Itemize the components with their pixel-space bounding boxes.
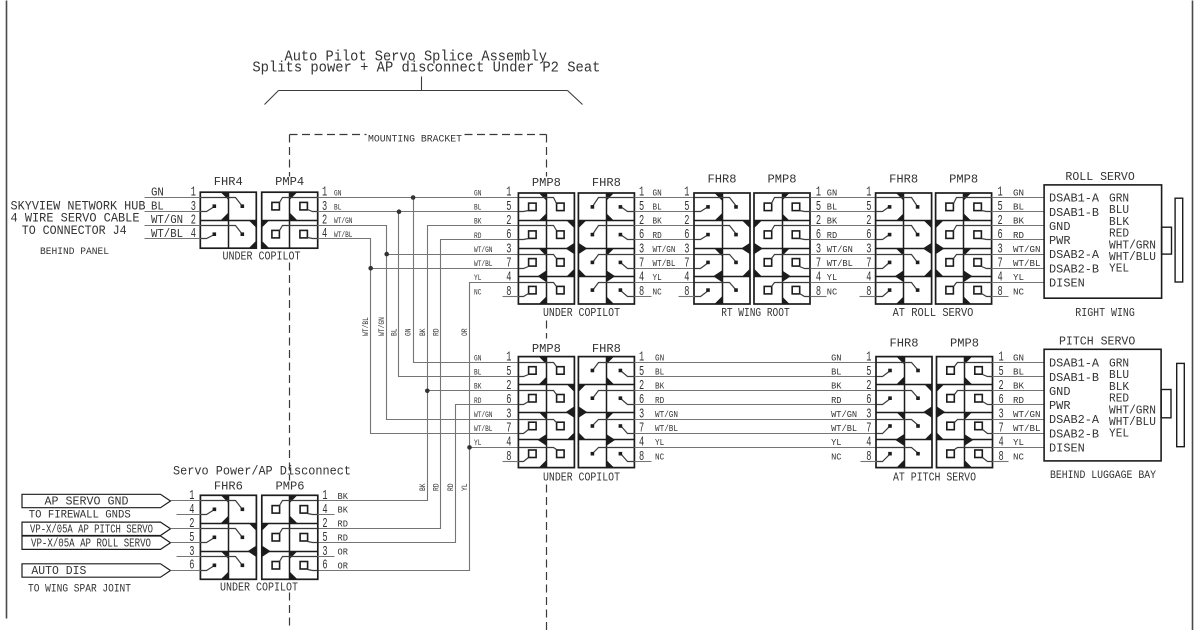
svg-text:WT/BL: WT/BL xyxy=(655,423,678,434)
svg-text:Splits power + AP disconnect U: Splits power + AP disconnect Under P2 Se… xyxy=(252,60,600,77)
svg-text:AT ROLL SERVO: AT ROLL SERVO xyxy=(893,307,974,320)
svg-text:7: 7 xyxy=(506,256,511,271)
svg-text:4: 4 xyxy=(322,503,327,518)
svg-text:2: 2 xyxy=(189,517,194,532)
svg-text:WT/GN: WT/GN xyxy=(827,244,853,255)
svg-text:NC: NC xyxy=(655,451,664,462)
wires pair C to roll servo xyxy=(992,198,1045,283)
junction BK xyxy=(425,389,430,394)
roll splice left wire labels xyxy=(474,188,493,297)
svg-text:1: 1 xyxy=(322,186,327,201)
svg-text:3: 3 xyxy=(506,407,511,422)
svg-text:WT/GN: WT/GN xyxy=(653,244,676,255)
svg-text:GND: GND xyxy=(1049,385,1071,399)
roll servo mount tab xyxy=(1162,227,1172,254)
svg-text:1: 1 xyxy=(816,186,821,201)
svg-text:BL: BL xyxy=(831,366,842,377)
svg-text:NC: NC xyxy=(827,286,838,297)
svg-text:2: 2 xyxy=(866,379,871,394)
svg-text:BL: BL xyxy=(653,202,662,213)
roll servo wire labels xyxy=(1013,187,1041,297)
pitch servo pin function labels xyxy=(1049,357,1100,456)
svg-text:PMP8: PMP8 xyxy=(768,172,797,186)
pair E left pin numbers xyxy=(866,351,871,465)
svg-text:BK: BK xyxy=(419,483,428,491)
svg-text:7: 7 xyxy=(639,256,644,271)
svg-text:WT/GN: WT/GN xyxy=(474,245,493,255)
svg-text:GN: GN xyxy=(653,187,662,198)
svg-text:4: 4 xyxy=(866,271,871,286)
svg-text:BL: BL xyxy=(827,202,838,213)
svg-text:RT WING ROOT: RT WING ROOT xyxy=(721,307,790,320)
PMP6 stub pin 3 xyxy=(318,556,335,558)
svg-text:WT/GN: WT/GN xyxy=(151,213,183,227)
svg-text:7: 7 xyxy=(866,421,871,436)
roll run B-C wires xyxy=(811,198,876,283)
svg-text:GN: GN xyxy=(334,188,341,198)
PMP6 stub pin 4 xyxy=(318,514,335,516)
pitch FHR8D NC stub right xyxy=(635,461,652,463)
pitch run D-E left wire labels xyxy=(655,352,678,462)
svg-text:UNDER COPILOT: UNDER COPILOT xyxy=(220,582,298,595)
svg-text:GN: GN xyxy=(405,328,414,336)
svg-text:BK: BK xyxy=(419,328,428,336)
svg-text:1: 1 xyxy=(189,489,194,504)
svg-text:WT/BL: WT/BL xyxy=(474,424,493,434)
svg-text:4: 4 xyxy=(816,271,821,286)
svg-text:7: 7 xyxy=(998,256,1003,271)
svg-text:7: 7 xyxy=(999,421,1004,436)
wire RD net pitch: PMP6-5 to pitch splice xyxy=(318,405,519,543)
svg-text:PMP4: PMP4 xyxy=(275,175,304,189)
svg-text:4: 4 xyxy=(639,271,644,286)
wire GN net: PMP4-1 to roll and pitch splices xyxy=(318,198,519,363)
roll splice left pin numbers xyxy=(506,186,511,300)
svg-text:DSAB2-A: DSAB2-A xyxy=(1049,413,1100,427)
svg-text:7: 7 xyxy=(639,421,644,436)
junction WT/BL xyxy=(368,266,373,271)
svg-text:8: 8 xyxy=(684,285,689,300)
pair C left NC stub xyxy=(860,296,876,298)
svg-text:VP-X/05A AP ROLL SERVO: VP-X/05A AP ROLL SERVO xyxy=(31,537,151,550)
svg-text:PITCH SERVO: PITCH SERVO xyxy=(1059,335,1135,349)
svg-text:WT/BL: WT/BL xyxy=(361,317,371,336)
svg-text:AT PITCH SERVO: AT PITCH SERVO xyxy=(893,472,976,485)
wires pair E to pitch servo xyxy=(993,363,1045,448)
roll run A-B wires xyxy=(635,198,695,283)
svg-text:3: 3 xyxy=(866,242,871,257)
svg-text:YL: YL xyxy=(655,437,664,448)
pitch servo box xyxy=(1044,349,1161,461)
svg-text:7: 7 xyxy=(816,256,821,271)
flag AP SERVO GND xyxy=(22,494,171,508)
svg-text:YL: YL xyxy=(827,272,838,283)
PMP4 pin numbers xyxy=(322,186,327,242)
mounting bracket dashed top edge xyxy=(290,134,547,136)
svg-text:YL: YL xyxy=(461,483,470,491)
svg-text:2: 2 xyxy=(816,214,821,229)
svg-text:WT/BL: WT/BL xyxy=(1013,258,1041,269)
junction YL xyxy=(467,445,472,450)
svg-text:BL: BL xyxy=(1013,202,1024,213)
svg-text:5: 5 xyxy=(506,365,511,380)
svg-text:1: 1 xyxy=(684,186,689,201)
svg-text:6: 6 xyxy=(506,393,511,408)
wire BK net: PMP6-1 to roll and pitch splices xyxy=(318,226,519,501)
svg-text:RD: RD xyxy=(338,519,349,530)
svg-text:4: 4 xyxy=(999,436,1004,451)
svg-text:5: 5 xyxy=(999,365,1004,380)
svg-text:RD: RD xyxy=(447,483,456,491)
svg-text:5: 5 xyxy=(684,200,689,215)
svg-text:NC: NC xyxy=(1013,286,1024,297)
svg-text:FHR8: FHR8 xyxy=(592,176,621,190)
svg-text:RD: RD xyxy=(831,395,842,406)
wire BL net: PMP4-3 to roll and pitch splices xyxy=(318,212,519,377)
svg-text:YL: YL xyxy=(831,437,842,448)
junction GN xyxy=(411,195,416,200)
svg-text:GN: GN xyxy=(151,185,164,199)
mounting bracket dashed left edge xyxy=(289,135,291,631)
svg-text:BEHIND PANEL: BEHIND PANEL xyxy=(40,246,109,258)
svg-text:6: 6 xyxy=(322,559,327,574)
svg-text:8: 8 xyxy=(639,285,644,300)
svg-text:1: 1 xyxy=(866,351,871,366)
roll run A-B wire labels xyxy=(653,187,676,297)
svg-text:WT/BL: WT/BL xyxy=(151,227,183,241)
svg-text:PMP6: PMP6 xyxy=(276,480,305,494)
svg-text:RD: RD xyxy=(338,533,349,544)
svg-text:6: 6 xyxy=(189,559,194,574)
svg-text:BL: BL xyxy=(151,200,164,214)
svg-text:UNDER COPILOT: UNDER COPILOT xyxy=(543,472,620,485)
pitch servo wire color labels xyxy=(1109,357,1156,441)
svg-text:BK: BK xyxy=(474,382,482,392)
svg-text:PMP8: PMP8 xyxy=(949,172,978,186)
connector FHR8 at roll servo xyxy=(876,193,932,305)
connector FHR8 rt wing root xyxy=(694,193,751,305)
svg-text:4: 4 xyxy=(998,271,1003,286)
FHR4 wire stubs xyxy=(145,198,201,239)
svg-text:2: 2 xyxy=(322,517,327,532)
svg-text:WT/BL: WT/BL xyxy=(653,258,676,269)
svg-text:RD: RD xyxy=(474,396,481,406)
svg-text:BL: BL xyxy=(391,328,400,336)
svg-text:YL: YL xyxy=(1013,272,1024,283)
svg-text:8: 8 xyxy=(506,450,511,465)
roll servo wire color labels xyxy=(1109,192,1156,276)
svg-text:2: 2 xyxy=(506,214,511,229)
connector PMP8 roll splice xyxy=(518,193,574,305)
PMP6 pin numbers xyxy=(322,489,327,574)
junction BL xyxy=(397,209,402,214)
svg-text:RD: RD xyxy=(433,328,442,336)
svg-text:6: 6 xyxy=(639,228,644,243)
svg-text:BL: BL xyxy=(474,203,481,213)
svg-text:2: 2 xyxy=(506,379,511,394)
svg-text:6: 6 xyxy=(506,228,511,243)
svg-text:NC: NC xyxy=(1013,451,1024,462)
svg-text:6: 6 xyxy=(866,393,871,408)
svg-text:4: 4 xyxy=(684,271,689,286)
svg-text:5: 5 xyxy=(639,200,644,215)
svg-text:UNDER COPILOT: UNDER COPILOT xyxy=(543,307,620,320)
svg-text:GN: GN xyxy=(831,352,841,363)
wire WT/GN net: PMP4-2 to roll and pitch splices xyxy=(318,226,519,420)
roll servo pin function labels xyxy=(1049,192,1100,291)
svg-text:1: 1 xyxy=(866,186,871,201)
roll splice right pin numbers xyxy=(639,186,644,300)
svg-text:FHR6: FHR6 xyxy=(214,480,243,494)
drawing frame left border xyxy=(6,1,8,619)
svg-text:5: 5 xyxy=(866,365,871,380)
FHR6 stub pin 3 xyxy=(177,556,201,558)
drawing frame right border xyxy=(1192,1,1194,631)
pitch servo wire labels xyxy=(1013,352,1041,462)
wire RD net roll: PMP6-2 to roll splice xyxy=(318,240,519,529)
connector FHR6 xyxy=(200,495,256,579)
svg-text:FHR8: FHR8 xyxy=(890,337,919,351)
svg-text:6: 6 xyxy=(684,228,689,243)
svg-text:1: 1 xyxy=(999,351,1004,366)
connector FHR8 roll splice xyxy=(578,193,634,305)
pair E NC stub right xyxy=(993,461,1009,463)
svg-text:DSAB1-A: DSAB1-A xyxy=(1049,357,1100,371)
svg-text:2: 2 xyxy=(684,214,689,229)
svg-text:RIGHT WING: RIGHT WING xyxy=(1075,307,1135,320)
connector FHR4 xyxy=(200,192,256,248)
svg-text:FHR8: FHR8 xyxy=(889,172,918,186)
svg-text:YL: YL xyxy=(474,438,481,448)
connector PMP8 pitch splice xyxy=(518,357,574,468)
svg-text:TO CONNECTOR J4: TO CONNECTOR J4 xyxy=(22,223,127,238)
svg-text:PMP8: PMP8 xyxy=(950,337,979,351)
svg-text:GN: GN xyxy=(1013,187,1024,198)
pair B left pin numbers xyxy=(684,186,689,300)
FHR6 pin numbers xyxy=(189,489,194,574)
pitch servo mount bar xyxy=(1177,363,1185,446)
pitch splice right pin numbers xyxy=(639,351,644,465)
svg-text:YL: YL xyxy=(653,272,662,283)
svg-text:NC: NC xyxy=(474,287,481,297)
svg-text:WT/BL: WT/BL xyxy=(474,259,493,269)
svg-text:BK: BK xyxy=(338,505,349,516)
svg-text:DSAB1-B: DSAB1-B xyxy=(1049,371,1099,385)
roll splice NC stub left xyxy=(503,296,519,298)
svg-text:WT/BL: WT/BL xyxy=(827,258,853,269)
svg-text:8: 8 xyxy=(866,285,871,300)
pair C NC stub right xyxy=(992,296,1009,298)
pair E left NC stub xyxy=(861,461,877,463)
svg-text:PWR: PWR xyxy=(1049,399,1071,413)
svg-text:3: 3 xyxy=(189,545,194,560)
svg-text:OR: OR xyxy=(461,328,470,336)
connector PMP6 xyxy=(262,495,318,579)
pitch splice left wire labels xyxy=(474,353,493,448)
svg-text:AUTO DIS: AUTO DIS xyxy=(31,565,86,578)
svg-text:1: 1 xyxy=(998,186,1003,201)
svg-text:YEL: YEL xyxy=(1109,427,1129,441)
svg-text:MOUNTING BRACKET: MOUNTING BRACKET xyxy=(368,134,462,146)
svg-text:2: 2 xyxy=(999,379,1004,394)
pair C right pin numbers xyxy=(998,186,1003,300)
pair C left pin numbers xyxy=(866,186,871,300)
svg-text:5: 5 xyxy=(322,531,327,546)
svg-text:1: 1 xyxy=(639,351,644,366)
svg-text:BL: BL xyxy=(474,367,481,377)
svg-text:7: 7 xyxy=(684,256,689,271)
svg-text:1: 1 xyxy=(639,186,644,201)
svg-text:FHR4: FHR4 xyxy=(214,175,243,189)
pitch splice NC stub left xyxy=(503,461,519,463)
svg-text:DSAB2-B: DSAB2-B xyxy=(1049,262,1099,276)
svg-text:5: 5 xyxy=(816,200,821,215)
connector PMP8 at pitch servo xyxy=(937,357,993,468)
svg-text:WT/GN: WT/GN xyxy=(334,216,353,226)
svg-text:GN: GN xyxy=(827,187,837,198)
svg-text:DISEN: DISEN xyxy=(1049,277,1085,291)
svg-text:DSAB1-B: DSAB1-B xyxy=(1049,206,1099,220)
svg-text:3: 3 xyxy=(506,242,511,257)
svg-text:2: 2 xyxy=(639,214,644,229)
svg-text:3: 3 xyxy=(684,242,689,257)
svg-text:Servo Power/AP Disconnect: Servo Power/AP Disconnect xyxy=(173,465,351,479)
svg-text:YL: YL xyxy=(474,273,481,283)
roll run B-C wire labels xyxy=(827,187,853,297)
svg-text:RD: RD xyxy=(433,483,442,491)
wire OR/YL net: PMP6-6 to roll and pitch splices xyxy=(318,283,519,571)
FHR6 stub pin 4 xyxy=(177,514,201,516)
flag VP-X/05A AP ROLL SERVO xyxy=(22,536,171,550)
pair B left NC stub xyxy=(679,296,695,298)
svg-text:3: 3 xyxy=(866,407,871,422)
svg-text:PWR: PWR xyxy=(1049,234,1071,248)
svg-text:DISEN: DISEN xyxy=(1049,442,1085,456)
flag AUTO DIS xyxy=(22,564,171,578)
PMP4 wire labels xyxy=(334,188,353,240)
svg-text:5: 5 xyxy=(506,200,511,215)
svg-text:6: 6 xyxy=(998,228,1003,243)
FHR4 wire labels xyxy=(151,185,183,241)
pitch run D-E right wire labels xyxy=(831,352,857,462)
svg-text:5: 5 xyxy=(189,531,194,546)
svg-text:WT/GN: WT/GN xyxy=(377,317,387,336)
svg-text:4: 4 xyxy=(189,503,194,518)
svg-text:AP SERVO GND: AP SERVO GND xyxy=(45,496,129,509)
svg-text:OR: OR xyxy=(338,546,349,557)
svg-text:YL: YL xyxy=(1013,437,1024,448)
svg-text:GN: GN xyxy=(1013,352,1024,363)
connector PMP8 at roll servo xyxy=(936,193,992,305)
svg-text:FHR8: FHR8 xyxy=(708,172,737,186)
svg-text:YEL: YEL xyxy=(1109,262,1129,276)
svg-text:GN: GN xyxy=(474,353,481,363)
connector PMP4 xyxy=(262,192,318,248)
title pointer brace xyxy=(265,77,583,105)
pitch run D-E wires xyxy=(635,363,877,448)
svg-text:4: 4 xyxy=(506,271,511,286)
svg-text:6: 6 xyxy=(866,228,871,243)
connector FHR8 at pitch servo xyxy=(876,357,933,468)
svg-text:4: 4 xyxy=(322,227,327,242)
svg-text:8: 8 xyxy=(999,450,1004,465)
svg-text:TO FIREWALL GNDS: TO FIREWALL GNDS xyxy=(29,510,131,522)
svg-text:1: 1 xyxy=(506,186,511,201)
mounting bracket dashed right edge xyxy=(546,135,548,631)
pitch splice left pin numbers xyxy=(506,351,511,465)
svg-text:6: 6 xyxy=(999,393,1004,408)
svg-text:WT/GN: WT/GN xyxy=(1013,409,1041,420)
PMP6 wire labels xyxy=(338,491,349,572)
vertical wire labels bottom band xyxy=(419,483,470,491)
svg-text:BK: BK xyxy=(831,381,842,392)
svg-text:6: 6 xyxy=(639,393,644,408)
pair E right pin numbers xyxy=(999,351,1004,465)
svg-text:FHR8: FHR8 xyxy=(592,342,621,356)
pair B NC stub right xyxy=(811,296,827,298)
svg-text:BEHIND LUGGAGE BAY: BEHIND LUGGAGE BAY xyxy=(1050,470,1156,482)
svg-text:3: 3 xyxy=(322,545,327,560)
roll FHR8A NC stub right xyxy=(635,296,652,298)
svg-text:WT/GN: WT/GN xyxy=(474,410,493,420)
svg-text:8: 8 xyxy=(506,285,511,300)
vertical wire labels mid band xyxy=(361,317,470,336)
svg-text:2: 2 xyxy=(866,214,871,229)
svg-text:GN: GN xyxy=(474,188,481,198)
svg-text:1: 1 xyxy=(191,186,196,201)
svg-text:WT/GN: WT/GN xyxy=(655,409,678,420)
svg-text:WT/GN: WT/GN xyxy=(1013,244,1041,255)
svg-text:8: 8 xyxy=(866,450,871,465)
junction WT/GN xyxy=(384,252,389,257)
flag VP-X/05A AP PITCH SERVO xyxy=(22,522,171,536)
svg-text:1: 1 xyxy=(322,489,327,504)
svg-text:BK: BK xyxy=(474,217,482,227)
svg-text:5: 5 xyxy=(639,365,644,380)
svg-text:OR: OR xyxy=(338,560,349,571)
svg-text:WT/GN: WT/GN xyxy=(831,409,857,420)
svg-text:7: 7 xyxy=(866,256,871,271)
svg-text:GN: GN xyxy=(655,352,664,363)
svg-text:8: 8 xyxy=(639,450,644,465)
svg-text:7: 7 xyxy=(506,421,511,436)
svg-text:4: 4 xyxy=(866,436,871,451)
svg-text:NC: NC xyxy=(653,286,662,297)
svg-text:BL: BL xyxy=(655,366,664,377)
svg-text:PMP8: PMP8 xyxy=(532,176,561,190)
svg-text:4: 4 xyxy=(639,436,644,451)
svg-text:VP-X/05A AP PITCH SERVO: VP-X/05A AP PITCH SERVO xyxy=(30,524,153,537)
svg-text:6: 6 xyxy=(816,228,821,243)
FHR4 pin numbers xyxy=(191,186,196,242)
pitch servo mount tab xyxy=(1161,390,1171,418)
svg-text:WT/BL: WT/BL xyxy=(1013,423,1041,434)
roll servo mount bar xyxy=(1175,198,1183,282)
svg-text:UNDER COPILOT: UNDER COPILOT xyxy=(223,251,301,264)
svg-text:8: 8 xyxy=(816,285,821,300)
svg-text:DSAB2-B: DSAB2-B xyxy=(1049,427,1099,441)
svg-text:5: 5 xyxy=(998,200,1003,215)
svg-text:NC: NC xyxy=(831,451,842,462)
svg-text:PMP8: PMP8 xyxy=(532,342,561,356)
svg-text:ROLL SERVO: ROLL SERVO xyxy=(1065,170,1134,184)
svg-text:DSAB1-A: DSAB1-A xyxy=(1049,192,1100,206)
connector FHR8 pitch splice xyxy=(578,357,634,468)
note skyview network hub xyxy=(11,199,146,238)
svg-text:1: 1 xyxy=(506,351,511,366)
svg-text:4: 4 xyxy=(191,227,196,242)
svg-text:2: 2 xyxy=(639,379,644,394)
